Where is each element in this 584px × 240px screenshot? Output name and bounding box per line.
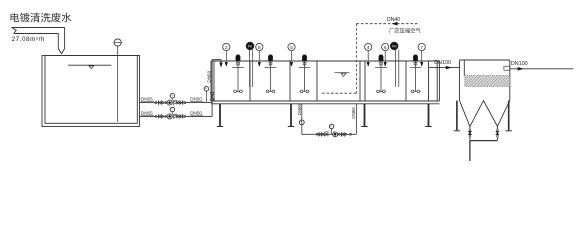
svg-text:DN100: DN100 [511, 61, 528, 67]
clarifier effluent launder [504, 66, 510, 70]
svg-text:PH: PH [392, 45, 397, 49]
flange [345, 133, 347, 135]
mixer M4 shaft [380, 61, 382, 91]
discharge pipe to riser (2) [186, 115, 212, 117]
sludge drain valve 1 [468, 131, 472, 133]
outlet channel weir wall [428, 61, 430, 101]
suction pipe DN65 from tank T1 (1) [140, 102, 156, 104]
pressure gauge PI on header [205, 91, 207, 103]
riser top elbow into basin 1 [212, 59, 221, 61]
basin wall 2 [289, 61, 291, 101]
svg-text:2: 2 [225, 45, 228, 51]
gate valve V1 (2) [157, 115, 159, 117]
chemical feed tag 8 [256, 43, 263, 50]
mixer M2 coupling [269, 62, 272, 65]
flange [469, 135, 471, 137]
svg-text:DN65: DN65 [297, 103, 302, 115]
pump P-1 [167, 100, 172, 105]
mixer M2 mount bar [265, 66, 277, 68]
clarifier inlet channel wall [463, 60, 465, 76]
mixer M5 motor [413, 56, 417, 61]
basin wall 4 (double) [359, 61, 361, 101]
flange [497, 135, 499, 137]
flange (1) [177, 102, 179, 104]
chemical feed tag 7 [418, 43, 425, 50]
basin support leg 1 [219, 104, 221, 126]
pump P-2 [167, 114, 172, 119]
basin left end wall (double) [210, 61, 212, 101]
union (2) [165, 116, 167, 118]
aeration header in basin (dashed) [322, 92, 356, 94]
clarifier lamella plate pack (hatched) [465, 76, 510, 87]
check valve on drain header [324, 133, 327, 137]
svg-text:DN100: DN100 [434, 60, 451, 66]
mixer M3 shaft [304, 61, 306, 91]
mixer M4 coupling [380, 62, 383, 65]
compressed air drop pipe (dashed) [355, 24, 357, 94]
svg-text:7: 7 [420, 45, 423, 51]
chemical feed tag 5 [288, 43, 295, 50]
check valve (2) [172, 115, 173, 117]
label 厂区压缩空气 [389, 28, 420, 33]
mixer M5 shaft [415, 61, 417, 91]
basin wall 1 [249, 61, 251, 101]
check valve (1) [172, 102, 173, 104]
mixer M3 impeller [300, 90, 310, 92]
level instrument LT on tank T1 [114, 39, 121, 46]
flange [316, 133, 318, 135]
svg-text:DN50: DN50 [190, 97, 202, 102]
clarifier top edge [460, 59, 510, 61]
hopper drain pipe 2 [496, 126, 498, 140]
basin drain pipe 2 DN65 [355, 104, 357, 135]
flange (2) [162, 116, 164, 118]
mixer M2 impeller [266, 90, 276, 92]
svg-text:4: 4 [367, 45, 370, 51]
basin block top edge [211, 60, 439, 62]
basin support leg 3 [364, 104, 366, 126]
mixer M1 mount bar [232, 66, 244, 68]
suction pipe DN65 from tank T1 (2) [140, 115, 156, 117]
chemical feed tag 2 [223, 43, 230, 50]
svg-text:5: 5 [290, 45, 293, 51]
svg-text:6: 6 [384, 45, 387, 51]
mixer M3 mount bar [299, 66, 311, 68]
flange [338, 133, 340, 135]
clarifier left wall [459, 60, 461, 101]
basin support leg 4 [428, 104, 430, 126]
clarifier leg right [508, 101, 510, 131]
chemical feed tag 4 [365, 43, 372, 50]
collection tank T1 walls [42, 56, 140, 127]
flange (1) [184, 102, 186, 104]
clarifier right wall [509, 60, 511, 101]
mixer M2 motor [268, 56, 272, 61]
gate valve on drain header [319, 132, 322, 136]
svg-text:PH: PH [248, 45, 253, 49]
pressure gauge PI on drain pump [330, 129, 332, 135]
discharge pipe to riser (1) [186, 102, 212, 104]
sludge pump P3 [333, 132, 338, 137]
compressed air main DN40 (dashed) [356, 23, 418, 25]
gate valve V2 (1) [180, 101, 183, 105]
inline device on drain pipe 1 [299, 120, 304, 125]
flange (1) [162, 102, 164, 104]
basin support leg 2 [290, 104, 292, 126]
mixer M1 motor [236, 56, 240, 61]
aeration basin water level mark [335, 72, 350, 74]
flange [322, 133, 324, 135]
flange [469, 129, 471, 131]
svg-text:DN65: DN65 [351, 107, 356, 119]
basin wall 5 [405, 61, 407, 101]
check valve on riser [210, 93, 214, 97]
hopper drain pipe 1 [469, 126, 471, 140]
influent pipe (double line) with break symbol [12, 27, 65, 29]
mixer M1 coupling [237, 62, 240, 65]
union (1) [165, 102, 167, 104]
gate valve V1 (1) [157, 102, 159, 104]
sludge discharge stub [469, 141, 471, 161]
mixer M5 coupling [414, 62, 417, 65]
pressure gauge PI (2) [171, 112, 173, 115]
mixer M5 mount bar [410, 66, 422, 68]
pipe DN100 to clarifier [429, 67, 460, 69]
tank T1 water level mark [68, 64, 111, 66]
pressure gauge PI (1) [171, 98, 173, 101]
svg-text:8: 8 [258, 45, 261, 51]
sludge drain valve 2 [496, 131, 500, 133]
flange (2) [177, 116, 179, 118]
mixer M1 shaft [237, 61, 239, 91]
svg-text:DN65: DN65 [141, 110, 153, 115]
svg-text:27.08m3/h: 27.08m3/h [12, 35, 45, 43]
drain header [302, 133, 357, 135]
mixer M4 mount bar [375, 66, 387, 68]
mixer M2 shaft [270, 61, 272, 91]
mixer M3 coupling [303, 62, 306, 65]
basin wall 3 [316, 61, 318, 101]
flange (2) [155, 116, 157, 118]
gate valve V2 (2) [180, 115, 183, 119]
clarifier hopper cones [460, 101, 510, 127]
chemical feed tag 6 [382, 43, 389, 50]
basin right end wall (double) [436, 61, 438, 101]
basin drain pipe 1 DN65 [301, 104, 303, 135]
mixer M1 impeller [233, 90, 243, 92]
influent label 电镀清洗废水 [11, 13, 72, 23]
flange [497, 129, 499, 131]
common riser pipe DN50 [211, 60, 213, 117]
pH meter probe [246, 42, 254, 50]
mixer M3 motor [302, 56, 306, 61]
flange (1) [155, 102, 157, 104]
pH meter probe [390, 42, 398, 50]
sludge header [470, 140, 498, 142]
clarifier leg left [456, 101, 458, 131]
basin block bottom (double line) [211, 100, 439, 102]
effluent pipe DN100 [510, 68, 574, 70]
flange (2) [184, 116, 186, 118]
svg-text:DN40: DN40 [387, 17, 400, 23]
svg-text:DN65: DN65 [141, 97, 153, 102]
mixer M4 motor [379, 56, 383, 61]
mixer M4 impeller [376, 90, 386, 92]
mixer M5 impeller [411, 90, 421, 92]
svg-text:DN50: DN50 [190, 110, 202, 115]
gate valve 2 on drain header [341, 132, 344, 136]
